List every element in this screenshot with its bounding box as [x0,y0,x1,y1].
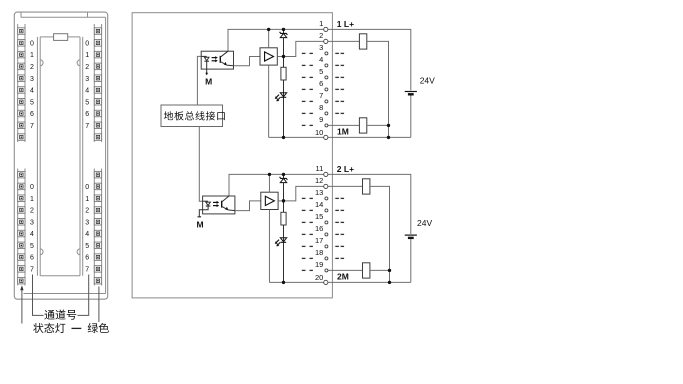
svg-text:2: 2 [30,208,34,215]
LED indicator box right lower group row 2 [94,183,101,190]
wire L+ bus terminal 1 to 24V supply [228,29,411,90]
svg-text:8: 8 [319,103,323,112]
junction [282,136,285,139]
LED indicator box left lower group row 5 [18,219,25,226]
LED indicator box right upper group row 4 [94,63,101,70]
svg-text:14: 14 [315,200,323,209]
LED indicator box left lower group row 3 [18,195,25,202]
LED indicator box right lower group row 6 [94,230,101,237]
svg-text:9: 9 [319,115,323,124]
svg-text:1: 1 [319,19,323,28]
junction [388,281,391,284]
svg-text:0: 0 [85,40,89,47]
module inner bottom edge [24,293,106,295]
junction [282,28,285,31]
relay coil K2b [363,263,370,278]
LED indicator box left lower group row 10 [18,277,25,284]
M terminal arrow [206,69,208,73]
amplifier A1 [260,48,277,65]
wire 24V supply negative to M rail [410,239,412,282]
LED indicator box right upper group row 2 [94,40,101,47]
LED indicator box right upper group row 1 [94,28,101,35]
wire 24V supply negative to M rail [410,96,412,138]
svg-text:15: 15 [315,212,323,221]
dashed channel wire (external) [335,197,344,199]
LED indicator box right upper group row 9 [94,122,101,129]
dashed channel wire (external) [335,88,344,90]
module inner top edge [21,16,106,18]
optocoupler U1 [201,51,233,69]
wire bus to amplifier top [268,29,270,47]
svg-text:2: 2 [30,64,34,71]
module connector block [54,34,68,41]
relay coil K2a [363,179,370,194]
svg-text:1 L+: 1 L+ [337,19,354,29]
junction [282,173,285,176]
label 通道号 [44,310,76,320]
LED strip rail right lower [93,169,95,286]
terminal 3 [319,43,328,55]
terminal 11 [316,164,328,177]
LED indicator box right upper group row 8 [94,110,101,117]
svg-text:18: 18 [315,248,323,257]
terminal 4 [319,55,328,67]
wire terminal 19 to relay [326,269,363,271]
svg-text:4: 4 [30,88,34,95]
zener diode Z2 [280,174,288,212]
svg-text:3: 3 [30,219,34,226]
channel numbers left lower 0-7 [30,184,34,273]
terminal 2 [319,31,328,44]
M rail wire to terminal 20 [269,281,410,283]
notch top-left [40,60,43,66]
junction [282,199,285,202]
label 状态灯 [33,323,65,333]
svg-text:M: M [205,77,212,87]
dashed channel wire (internal) [302,233,313,235]
dashed channel wire (internal) [302,197,313,199]
module outline [14,12,107,299]
svg-text:7: 7 [319,91,323,100]
relay coil K1a [359,34,366,49]
terminal 13 [315,188,328,200]
svg-text:2 L+: 2 L+ [337,164,354,174]
battery 24V supply 2 [405,235,417,238]
svg-text:7: 7 [85,266,89,273]
svg-text:1: 1 [85,196,89,203]
dashed channel wire (internal) [302,52,313,54]
terminal 18 [315,248,328,260]
LED indicator box left upper group row 3 [18,51,25,58]
LED indicator box left upper group row 7 [18,98,25,105]
dashed channel wire (internal) [302,64,313,66]
LED indicator box left upper group row 1 [18,28,25,35]
svg-text:7: 7 [85,123,89,130]
terminal 17 [315,236,328,248]
notch bottom-right [77,249,80,255]
dashed channel wire (internal) [302,209,313,211]
svg-text:2: 2 [85,64,89,71]
svg-text:3: 3 [30,76,34,83]
svg-text:1: 1 [85,52,89,59]
svg-text:3: 3 [319,43,323,52]
dashed channel wire (external) [335,245,344,247]
relay coil K1b [359,118,366,133]
wire opto1 to bus box [197,56,201,105]
svg-text:7: 7 [30,123,34,130]
svg-text:12: 12 [315,176,323,185]
module inner right edge [105,17,107,293]
svg-text:17: 17 [315,236,323,245]
svg-text:7: 7 [30,266,34,273]
channel number bracket [33,275,44,316]
terminal 5 [319,67,328,79]
terminal 8 [319,103,328,115]
LED indicator box left lower group row 6 [18,230,25,237]
dashed channel wire (internal) [302,112,313,114]
wire bus to amplifier top [268,174,270,192]
resistor R2 [281,212,286,225]
status LED D2 [275,238,287,247]
LED indicator box left upper group row 8 [18,110,25,117]
module central opening [36,37,38,276]
LED indicator box left lower group row 8 [18,254,25,260]
terminal 1 [319,19,328,32]
terminal 9 [319,115,328,127]
dashed channel wire (external) [335,64,344,66]
svg-text:6: 6 [85,255,89,262]
terminal 10 [315,128,328,139]
dashed channel wire (internal) [302,124,313,126]
dashed channel wire (external) [335,112,344,114]
svg-text:11: 11 [316,164,324,173]
LED indicator box left upper group row 6 [18,87,25,94]
M rail wire to terminal 10 [269,136,411,138]
svg-text:6: 6 [85,111,89,118]
wire L+ bus terminal 11 to 24V supply [229,174,411,234]
svg-text:6: 6 [30,111,34,118]
wire terminal 9 to relay [326,124,360,126]
LED indicator box left lower group row 7 [18,242,25,249]
LED indicator box left upper group row 10 [18,134,25,141]
LED indicator box left lower group row 9 [18,266,25,273]
svg-text:M: M [196,220,203,230]
svg-text:0: 0 [85,184,89,191]
junction [268,173,271,176]
terminal 14 [315,200,328,212]
LED indicator box left lower group row 4 [18,207,25,214]
wire relay to return rail [370,186,390,282]
wire amplifier bottom to M rail [268,65,270,137]
terminal 15 [315,212,328,224]
svg-text:2: 2 [85,208,89,215]
svg-text:0: 0 [30,40,34,47]
LED indicator box right upper group row 3 [94,51,101,58]
amplifier A2 [261,192,278,209]
LED indicator box right lower group row 5 [94,219,101,226]
svg-text:5: 5 [30,99,34,106]
LED indicator box left upper group row 4 [18,63,25,70]
LED indicator box right lower group row 10 [94,277,101,284]
svg-text:3: 3 [85,76,89,83]
dashed channel wire (internal) [302,221,313,223]
terminal 20 [315,273,328,285]
label dash [72,327,82,329]
svg-text:4: 4 [30,231,34,238]
terminal 19 [315,260,328,272]
LED indicator box right lower group row 7 [94,242,101,249]
junction [387,136,390,139]
backplane bus interface box 地板总线接口 [161,105,223,127]
status LED leader arrow left [21,289,23,324]
LED indicator box left upper group row 9 [18,122,25,129]
LED strip rail left upper [17,24,19,142]
zener diode Z1 [280,29,288,67]
LED indicator box right lower group row 3 [94,195,101,202]
svg-text:19: 19 [315,260,323,269]
svg-text:5: 5 [319,67,323,76]
dashed channel wire (internal) [302,269,313,271]
status LED leader right [98,287,100,323]
svg-text:16: 16 [315,224,323,233]
junction [282,55,285,58]
svg-text:24V: 24V [420,76,435,86]
svg-text:4: 4 [85,231,89,238]
channel numbers right lower 0-7 [85,184,89,273]
svg-text:13: 13 [315,188,323,197]
channel numbers left upper 0-7 [30,40,34,129]
wire relay to return rail [367,41,389,137]
dashed channel wire (external) [335,209,344,211]
svg-text:3: 3 [85,219,89,226]
dashed channel wire (internal) [302,245,313,247]
dashed channel wire (external) [335,52,344,54]
LED indicator box right lower group row 1 [94,171,101,178]
svg-text:20: 20 [315,273,323,282]
dashed channel wire (external) [335,100,344,102]
svg-text:4: 4 [319,55,323,64]
resistor R1 [281,67,286,80]
dashed channel wire (external) [335,233,344,235]
LED indicator box right upper group row 10 [94,134,101,141]
svg-text:1: 1 [30,196,34,203]
junction [282,281,285,284]
wire amplifier output to relay terminal [278,186,362,200]
LED indicator box right lower group row 8 [94,254,101,260]
dashed channel wire (external) [335,221,344,223]
wire opto output to amplifier [234,56,261,65]
svg-text:5: 5 [30,243,34,250]
terminal 12 [315,176,328,189]
notch bottom-left [40,249,43,255]
svg-text:6: 6 [30,255,34,262]
junction [387,124,390,127]
schematic enclosure box [132,13,332,298]
optocoupler U2 [198,196,235,217]
dashed channel wire (external) [335,257,344,259]
battery 24V supply 1 [405,92,417,95]
LED indicator box right lower group row 9 [94,266,101,273]
svg-text:1: 1 [30,52,34,59]
svg-text:4: 4 [85,88,89,95]
svg-text:5: 5 [85,243,89,250]
svg-text:2M: 2M [337,272,349,282]
junction [388,269,391,272]
LED indicator box left lower group row 1 [18,171,25,178]
svg-text:5: 5 [85,99,89,106]
LED strip rail right upper [93,24,95,142]
label 绿色 [88,323,109,333]
junction [267,28,270,31]
dashed channel wire (external) [335,76,344,78]
LED indicator box right upper group row 6 [94,87,101,94]
dashed channel wire (internal) [302,257,313,259]
svg-text:6: 6 [319,79,323,88]
terminal 16 [315,224,328,236]
svg-text:0: 0 [30,184,34,191]
dashed channel wire (internal) [302,100,313,102]
channel numbers right upper 0-7 [85,40,89,129]
svg-text:24V: 24V [417,218,432,228]
terminal 7 [319,91,328,103]
wire amplifier bottom to M rail [268,210,270,283]
dashed channel wire (internal) [302,76,313,78]
svg-text:1M: 1M [337,127,349,137]
svg-text:2: 2 [319,31,323,40]
LED indicator box left lower group row 2 [18,183,25,190]
LED strip rail left lower [17,169,19,286]
LED indicator box right lower group row 4 [94,207,101,214]
dashed channel wire (internal) [302,88,313,90]
status LED D1 [275,93,287,102]
wire opto output to amplifier [235,201,261,211]
terminal 6 [319,79,328,91]
wire amplifier output to relay terminal [277,41,359,56]
LED indicator box left upper group row 2 [18,40,25,47]
wire bus box to opto2 [199,127,202,202]
LED indicator box right upper group row 5 [94,75,101,82]
svg-text:10: 10 [315,128,323,137]
LED indicator box right upper group row 7 [94,98,101,105]
LED indicator box left upper group row 5 [18,75,25,82]
notch top-right [77,60,80,66]
